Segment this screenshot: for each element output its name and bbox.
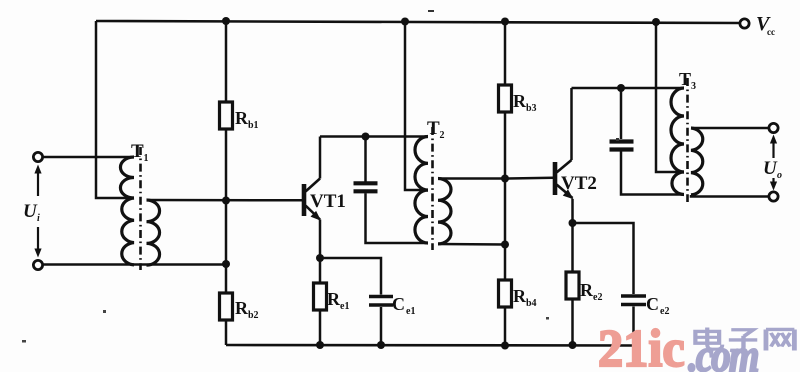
svg-text:e2: e2 — [660, 306, 669, 317]
wire Ce2 to bottom rail end — [632, 307, 635, 346]
node VT2 emitter — [569, 219, 577, 227]
node Ce1 bottom — [377, 341, 385, 349]
wire rail to Rb1 — [225, 21, 228, 102]
wire Re1 to bottom rail — [319, 310, 322, 345]
wire input bottom to node — [42, 263, 226, 266]
wire collector to T2 primary top — [320, 135, 428, 138]
wire input top to T1 — [42, 156, 134, 159]
wire T3 secondary bottom to output — [691, 195, 769, 197]
wire emitter node to Ce2 — [573, 223, 634, 294]
svg-text:VT2: VT2 — [561, 173, 597, 194]
transformer T1 primary lower — [122, 198, 134, 265]
svg-text:R: R — [235, 108, 249, 128]
transistor VT2 emitter stroke — [557, 185, 574, 200]
svg-text:i: i — [37, 213, 40, 224]
resistor Rb2 — [220, 293, 259, 321]
wire Rb4 to bottom rail — [504, 307, 507, 346]
node T1-Rb2 — [222, 260, 230, 268]
svg-text:C: C — [392, 294, 405, 314]
wire Ce1 to bottom rail — [380, 307, 383, 345]
wire rail drop to T3 tap — [656, 22, 684, 172]
capacitor across T3 primary (top lead) — [620, 88, 623, 139]
label T3 — [679, 69, 696, 92]
terminal input bottom — [33, 260, 42, 269]
svg-text:b1: b1 — [248, 120, 259, 131]
svg-text:b2: b2 — [248, 310, 259, 321]
node base VT2 — [501, 175, 509, 183]
svg-text:R: R — [327, 289, 341, 309]
speck marks — [22, 10, 619, 343]
wire rail drop to T2 tap — [405, 22, 428, 191]
watermark 21ic.com logo — [598, 320, 758, 372]
capacitor Ce1 — [369, 294, 415, 317]
svg-text:3: 3 — [691, 81, 696, 92]
svg-text:b3: b3 — [526, 103, 537, 114]
capacitor bottom lead to T3 primary bottom — [621, 152, 684, 195]
terminal output bottom — [769, 192, 778, 201]
transformer T3 primary lower — [672, 172, 684, 195]
node rail-T2 — [401, 18, 409, 26]
node VT1 emitter — [316, 254, 324, 262]
node T2 secondary bottom — [501, 241, 509, 249]
svg-text:cc: cc — [767, 27, 775, 37]
label Ui — [23, 201, 40, 224]
svg-text:1: 1 — [144, 153, 149, 164]
resistor Re2 — [566, 272, 602, 303]
capacitor across T2 primary (top lead) — [364, 137, 367, 182]
node Re1 bottom — [316, 341, 324, 349]
svg-text:C: C — [646, 294, 659, 314]
transformer T2 secondary — [438, 179, 451, 244]
wire T2 secondary top to node — [438, 177, 505, 180]
wire Rb1 to base node — [225, 129, 228, 201]
svg-text:VT1: VT1 — [310, 191, 346, 212]
wire emitter node to Ce1 — [320, 258, 381, 295]
terminal output top — [769, 123, 778, 132]
wire T1 secondary to VT1 base — [147, 199, 303, 202]
transformer T3 core — [686, 78, 689, 202]
svg-text:R: R — [513, 286, 527, 306]
node rail-T3 — [652, 18, 660, 26]
transistor VT1 emitter stroke — [306, 206, 322, 221]
node collector cap VT2 — [617, 84, 625, 92]
label VT1 — [310, 191, 346, 212]
transformer T1 secondary — [147, 200, 160, 265]
terminal Vcc — [740, 13, 775, 37]
wire bottom common rail — [226, 344, 634, 347]
transformer T1 primary upper — [120, 157, 134, 198]
transformer T1 core — [139, 147, 142, 270]
node collector cap — [362, 133, 370, 141]
wire VT2 collector up — [570, 88, 573, 160]
wire VT1 emitter down — [319, 220, 322, 259]
wire base node to VT2 base — [505, 177, 553, 180]
arrow Uo up — [770, 135, 777, 159]
transformer T2 primary lower — [415, 190, 428, 243]
svg-text:T: T — [131, 141, 144, 162]
wire base node to lower node — [504, 179, 507, 245]
wire collector to T3 primary top — [572, 87, 685, 90]
svg-text:2: 2 — [440, 130, 445, 141]
resistor Rb1 — [220, 102, 259, 131]
wire T2 secondary bottom to node — [438, 243, 505, 246]
wire emitter node to Re1 — [319, 258, 322, 283]
transistor VT1 collector stroke — [306, 179, 321, 192]
node base VT1 — [222, 197, 230, 205]
label T2 — [427, 118, 445, 141]
node rail-Rb1 — [222, 17, 230, 25]
wire emitter node to Re2 — [571, 223, 574, 272]
wire Re2 to bottom rail — [571, 299, 574, 345]
wire Rb2 to bottom rail — [225, 320, 228, 345]
wire rail to Rb3 — [504, 22, 507, 86]
svg-text:e2: e2 — [593, 292, 602, 303]
wire T3 secondary top to output — [691, 127, 769, 130]
wire lower node to Rb4 — [504, 245, 507, 280]
wire Rb3 to base node VT2 — [504, 112, 507, 179]
transformer T2 primary upper — [415, 137, 428, 191]
svg-text:R: R — [235, 298, 249, 318]
node rail-Rb3 — [501, 18, 509, 26]
terminal input top — [33, 152, 42, 161]
svg-text:U: U — [763, 158, 778, 179]
transformer T2 core — [431, 127, 434, 250]
transformer T3 primary upper — [671, 88, 684, 172]
label T1 — [131, 141, 149, 164]
label Uo — [763, 158, 782, 181]
wire VT1 collector up — [319, 137, 322, 179]
resistor Rb4 — [499, 280, 537, 309]
wire base node to Rb2 — [225, 201, 228, 293]
transistor VT2 collector stroke — [557, 160, 572, 173]
svg-text:U: U — [23, 201, 38, 222]
svg-text:R: R — [513, 91, 527, 111]
transistor VT2 base bar — [553, 162, 558, 195]
svg-text:b4: b4 — [526, 298, 537, 309]
capacitor across T3 primary — [610, 142, 634, 150]
svg-text:e1: e1 — [406, 306, 415, 317]
label VT2 — [561, 173, 597, 194]
capacitor across T2 primary — [354, 183, 378, 191]
svg-text:e1: e1 — [340, 301, 349, 312]
svg-text:T: T — [679, 69, 691, 89]
arrow Ui up — [34, 165, 41, 197]
resistor Re1 — [314, 283, 350, 312]
wire VT2 emitter down — [571, 199, 574, 223]
capacitor Ce2 — [621, 294, 669, 317]
arrow Uo down — [770, 178, 777, 191]
arrow Ui down — [34, 227, 41, 258]
capacitor bottom lead to T2 primary bottom — [366, 193, 429, 243]
node Re2 bottom — [569, 341, 577, 349]
wire rail left drop to T1 tap — [96, 21, 134, 198]
watermark text dianzi wang — [695, 327, 794, 350]
resistor Rb3 — [499, 85, 537, 114]
svg-text:R: R — [580, 280, 594, 300]
svg-text:o: o — [777, 170, 782, 181]
svg-text:21ic: 21ic — [598, 320, 685, 372]
transformer T3 secondary — [691, 128, 703, 195]
wire top supply rail — [96, 21, 740, 23]
node Rb4 bottom — [501, 342, 509, 350]
transistor VT1 base bar — [302, 184, 307, 216]
